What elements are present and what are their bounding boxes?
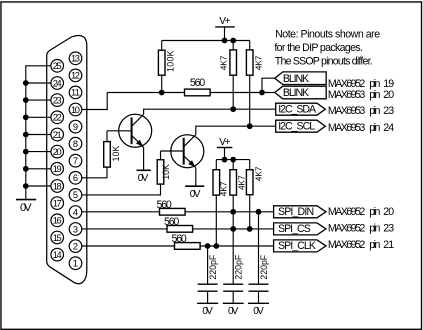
svg-text:4K7: 4K7 xyxy=(218,181,228,196)
svg-text:for the DIP packages.: for the DIP packages. xyxy=(274,42,363,54)
svg-text:17: 17 xyxy=(53,198,62,208)
svg-text:100K: 100K xyxy=(166,50,176,72)
svg-text:24: 24 xyxy=(383,122,394,134)
svg-text:15: 15 xyxy=(53,233,62,243)
svg-text:19: 19 xyxy=(53,164,62,174)
svg-text:0V: 0V xyxy=(228,306,239,317)
svg-text:25: 25 xyxy=(53,61,62,71)
svg-text:V+: V+ xyxy=(219,16,231,27)
svg-text:22: 22 xyxy=(53,113,62,123)
svg-text:0V: 0V xyxy=(138,173,149,184)
svg-text:21: 21 xyxy=(53,130,62,140)
svg-text:6: 6 xyxy=(73,173,78,183)
svg-text:560: 560 xyxy=(190,77,205,89)
svg-text:3: 3 xyxy=(73,224,78,234)
svg-text:MAX6952: MAX6952 xyxy=(328,222,365,234)
svg-text:4: 4 xyxy=(73,207,78,217)
svg-text:13: 13 xyxy=(71,54,80,64)
svg-text:18: 18 xyxy=(53,181,62,191)
svg-text:23: 23 xyxy=(383,222,394,234)
svg-text:4K7: 4K7 xyxy=(219,55,229,70)
svg-text:4K7: 4K7 xyxy=(237,175,247,190)
svg-text:10K: 10K xyxy=(161,164,171,180)
svg-text:MAX6953: MAX6953 xyxy=(328,105,365,117)
svg-text:12: 12 xyxy=(71,71,80,81)
svg-text:MAX6953: MAX6953 xyxy=(328,89,365,101)
svg-text:MAX6952: MAX6952 xyxy=(328,239,365,251)
svg-text:23: 23 xyxy=(383,105,394,117)
svg-text:9: 9 xyxy=(73,122,78,132)
svg-text:560: 560 xyxy=(157,199,172,211)
svg-text:24: 24 xyxy=(53,78,62,88)
svg-text:20: 20 xyxy=(383,89,394,101)
svg-text:4K7: 4K7 xyxy=(254,166,264,181)
svg-text:11: 11 xyxy=(71,88,80,98)
svg-text:I2C_SDA: I2C_SDA xyxy=(278,104,317,116)
svg-text:220pF: 220pF xyxy=(259,254,269,279)
svg-text:MAX6953: MAX6953 xyxy=(328,122,365,134)
svg-text:pin: pin xyxy=(369,122,380,134)
svg-text:2: 2 xyxy=(73,241,78,251)
svg-text:0V: 0V xyxy=(190,189,201,200)
svg-text:8: 8 xyxy=(73,139,78,149)
svg-text:220pF: 220pF xyxy=(234,254,244,279)
svg-text:The SSOP pinouts differ.: The SSOP pinouts differ. xyxy=(275,56,373,68)
svg-text:220pF: 220pF xyxy=(208,254,218,279)
svg-text:SPI_CLK: SPI_CLK xyxy=(278,240,316,252)
svg-text:V+: V+ xyxy=(219,137,231,148)
svg-text:10: 10 xyxy=(71,105,80,115)
svg-text:7: 7 xyxy=(73,156,78,166)
svg-text:pin: pin xyxy=(369,222,380,234)
svg-text:SPI_DIN: SPI_DIN xyxy=(278,206,314,218)
svg-text:16: 16 xyxy=(53,216,62,226)
svg-text:MAX6952: MAX6952 xyxy=(328,206,365,218)
svg-text:20: 20 xyxy=(383,206,394,218)
svg-text:21: 21 xyxy=(383,239,394,251)
svg-text:23: 23 xyxy=(53,95,62,105)
svg-text:560: 560 xyxy=(164,216,179,228)
svg-text:Note: Pinouts shown are: Note: Pinouts shown are xyxy=(275,29,380,41)
svg-text:20: 20 xyxy=(53,147,62,157)
svg-text:5: 5 xyxy=(73,190,78,200)
svg-text:pin: pin xyxy=(369,206,380,218)
svg-text:BLINK: BLINK xyxy=(283,73,309,85)
svg-text:560: 560 xyxy=(172,233,187,245)
svg-text:0V: 0V xyxy=(202,306,213,317)
svg-text:10K: 10K xyxy=(111,146,121,162)
svg-text:14: 14 xyxy=(53,250,62,260)
svg-text:pin: pin xyxy=(369,89,380,101)
svg-text:pin: pin xyxy=(369,239,380,251)
svg-text:0V: 0V xyxy=(253,306,264,317)
svg-text:1: 1 xyxy=(73,259,78,269)
svg-text:4K7: 4K7 xyxy=(253,55,263,70)
svg-text:I2C_SCL: I2C_SCL xyxy=(278,121,315,133)
svg-text:pin: pin xyxy=(369,105,380,117)
svg-text:SPI_CS: SPI_CS xyxy=(278,223,311,235)
svg-text:BLINK: BLINK xyxy=(283,87,309,99)
svg-text:0V: 0V xyxy=(20,202,32,214)
